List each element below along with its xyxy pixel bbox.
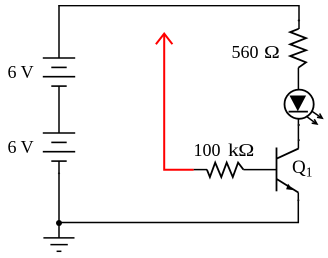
wire: LED to collector [297, 119, 299, 149]
wire: emitter to bottom rail [297, 193, 299, 224]
LED D1 light arrow 1 [311, 111, 322, 118]
label: 6 V (B2) [8, 138, 34, 156]
wire: resistor to LED [297, 68, 299, 90]
LED D1 circle [285, 90, 314, 119]
label: 560 ohm [232, 43, 278, 61]
battery B1 [43, 58, 75, 86]
node: wire-end dot on left rail [58, 172, 60, 174]
node: wire-end dot above collector corner [298, 139, 300, 141]
label: Q1 [292, 158, 312, 179]
wire: resistor to base [243, 169, 276, 171]
resistor R1 560 ohm [290, 29, 306, 68]
node: junction at bottom-left [56, 220, 62, 226]
label: 100 kohm [194, 141, 249, 159]
resistor R2 100 kohm [207, 163, 244, 178]
transistor Q1 emitter arrowhead [286, 184, 293, 190]
red current arrow [156, 34, 194, 170]
battery B2 [43, 133, 75, 161]
ground [43, 223, 74, 252]
wire: between batteries [58, 86, 60, 133]
wire: top rail [58, 5, 299, 7]
wire: bottom rail [59, 222, 299, 224]
node: wire-end dot on right rail [298, 19, 300, 21]
LED D1 cathode bar [289, 111, 308, 113]
wire: right rail upper [298, 5, 300, 29]
LED D1 light arrow 2 [306, 116, 317, 124]
LED D1 anode triangle [290, 96, 305, 110]
node: wire-end dot below LED [298, 124, 300, 126]
node: wire-end dot on emitter lead [297, 199, 299, 201]
wire: left rail upper [58, 5, 60, 58]
label: 6 V (B1) [8, 63, 34, 81]
wire: left rail lower [58, 161, 60, 222]
wire: base wire (red end to resistor) [194, 169, 207, 171]
transistor Q1 [277, 148, 299, 193]
